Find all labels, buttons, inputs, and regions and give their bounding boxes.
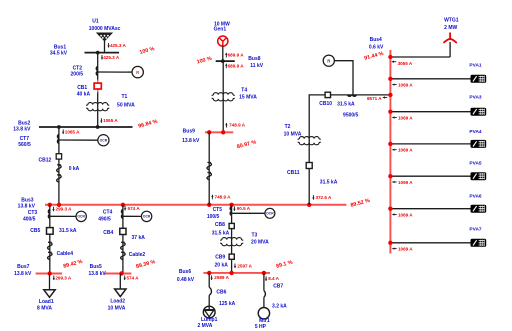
node Bus3 cable3 branch: [207, 203, 211, 207]
current label 299.3 A into Load1: [53, 276, 55, 281]
current label 1069 A PVA4: [392, 149, 396, 151]
bus Bus8 11 kV: [216, 60, 235, 62]
svg-text:Bus4: Bus4: [370, 37, 382, 43]
svg-text:200/5: 200/5: [71, 72, 84, 78]
utility U1: [97, 33, 112, 41]
svg-text:3055 A: 3055 A: [398, 61, 413, 66]
breaker CB7 LV: [264, 291, 265, 298]
wire relay R2 to tie line: [334, 61, 353, 95]
lumped load Lump1 2 MVA: [203, 306, 215, 318]
svg-text:31.5 kA: 31.5 kA: [337, 102, 355, 108]
svg-text:PVA5: PVA5: [469, 161, 482, 167]
svg-text:0 kA: 0 kA: [69, 166, 80, 172]
svg-text:20 kA: 20 kA: [215, 262, 229, 268]
svg-text:Load2: Load2: [110, 299, 125, 305]
svg-text:WTG1: WTG1: [444, 18, 459, 24]
wire Bus6 to Lump1: [208, 273, 210, 287]
node Bus4 WTG junction: [388, 55, 392, 59]
svg-text:0.6 kV: 0.6 kV: [369, 45, 384, 51]
node Bus4 PVA4 junction: [388, 142, 392, 146]
svg-text:560/5: 560/5: [18, 142, 31, 148]
svg-text:Bus6: Bus6: [179, 269, 191, 275]
svg-text:Load1: Load1: [39, 299, 54, 305]
svg-text:50 MVA: 50 MVA: [117, 102, 135, 108]
svg-text:T4: T4: [241, 88, 247, 94]
breaker CB1 40 kA open: [97, 80, 99, 93]
relay R2: [323, 55, 334, 66]
svg-text:100/5: 100/5: [207, 214, 220, 220]
breaker CB12: [56, 154, 61, 159]
svg-text:90.5 A: 90.5 A: [237, 206, 251, 211]
wire Bus4 to PVA5: [390, 175, 470, 177]
svg-text:Bus8: Bus8: [248, 56, 260, 62]
bus Bus4 0.6 kV: [389, 50, 391, 254]
breaker CB8: [229, 223, 234, 228]
PV array PVA3: [471, 108, 487, 116]
svg-text:3.2 kA: 3.2 kA: [272, 303, 287, 309]
current label 372.6 A: [312, 195, 314, 200]
node Bus4 PVA3 junction: [388, 110, 392, 114]
wire Bus4 to PVA4: [390, 143, 470, 145]
breaker CB5: [47, 228, 54, 235]
wire Bus4 to PVA3: [390, 111, 470, 113]
node Bus4 tie junction: [388, 93, 392, 97]
relay OCR4: [265, 208, 275, 218]
bus Bus5 13.8 kV: [104, 273, 131, 275]
current label 1065 A at T1 secondary: [100, 118, 102, 123]
svg-text:PVA7: PVA7: [469, 227, 482, 233]
svg-text:Cable2: Cable2: [129, 252, 146, 258]
svg-text:574 A: 574 A: [128, 206, 141, 211]
node Bus6 Lump1 junction: [207, 271, 211, 275]
svg-text:CB12: CB12: [39, 158, 52, 164]
wire Gen1 to Bus8: [222, 46, 224, 61]
node Bus7 junction: [48, 271, 52, 275]
wind turbine WTG1 2 MW: [444, 33, 456, 57]
current label 1069 A PVA7: [392, 247, 396, 249]
bus Bus9 13.8 kV faulted: [205, 131, 233, 133]
svg-text:689.9 A: 689.9 A: [228, 63, 245, 68]
bus Bus1 34.5 kV: [85, 52, 120, 54]
wire Bus3 to Bus5: [122, 205, 124, 274]
PV array PVA4: [471, 140, 487, 148]
node Bus8 junction: [221, 59, 225, 63]
svg-text:372.6 A: 372.6 A: [315, 195, 332, 200]
wire Bus2 feeder down to Bus3: [58, 127, 60, 205]
node Bus3 CT3 branch: [48, 203, 52, 207]
svg-text:37 kA: 37 kA: [132, 235, 146, 241]
svg-text:299.3 A: 299.3 A: [55, 275, 72, 280]
current label 1069 A PVA6: [392, 213, 396, 215]
svg-text:Bus9: Bus9: [183, 129, 195, 135]
node Bus9 T4 junction: [221, 130, 225, 134]
CT CT6 9500/5: [348, 95, 357, 96]
relay OCR1: [98, 135, 109, 146]
current label 1069 A PVA5: [392, 181, 396, 183]
PV array PVA1: [471, 75, 487, 83]
relay OCR2: [76, 211, 86, 221]
current label 3055 A WTG: [392, 61, 396, 63]
bus Bus7 13.8 kV: [36, 273, 63, 275]
svg-text:10 MVA: 10 MVA: [108, 306, 126, 312]
PV array PVA5: [471, 172, 487, 180]
svg-text:13.8 kV: 13.8 kV: [13, 126, 31, 132]
svg-text:748.9 A: 748.9 A: [229, 123, 246, 128]
generator Gen1 10 MW: [218, 36, 228, 46]
svg-text:1069 A: 1069 A: [398, 148, 413, 153]
svg-text:40 kA: 40 kA: [77, 92, 91, 98]
svg-text:Bus5: Bus5: [90, 264, 102, 270]
wire Bus9 to Bus3 cable3: [208, 132, 210, 205]
current label 2597 A into Bus6: [234, 264, 236, 269]
svg-text:31.5 kA: 31.5 kA: [212, 231, 230, 237]
node Bus9 cable junction: [207, 130, 211, 134]
CT CT4 490/5: [122, 210, 123, 219]
breaker CB10: [325, 92, 330, 97]
node Bus5 junction: [119, 271, 123, 275]
svg-text:8 MVA: 8 MVA: [37, 306, 52, 312]
svg-text:0.48 kV: 0.48 kV: [177, 277, 195, 283]
svg-text:1069 A: 1069 A: [398, 180, 413, 185]
svg-text:2 MVA: 2 MVA: [197, 323, 212, 329]
wire Bus6 to Mtr1: [263, 273, 265, 291]
current label 90.5 A Bus3 branch: [233, 206, 235, 211]
node Bus4 PVA5 junction: [388, 174, 392, 178]
node Bus6 Mtr1 junction: [262, 271, 266, 275]
svg-text:Bus3: Bus3: [21, 197, 33, 203]
wire WTG1 to Bus4: [390, 56, 450, 58]
wire utility drop to Bus1: [104, 40, 106, 52]
current label 748.9 A into Bus9: [225, 123, 227, 128]
wire Bus3 to Bus6 via T3: [231, 205, 233, 273]
wire CT5 tap to relay OCR4: [232, 212, 265, 214]
breaker CB4: [120, 228, 126, 234]
svg-text:31.5 kA: 31.5 kA: [59, 228, 77, 234]
current label 1065 A Bus2 feeder: [62, 129, 64, 134]
svg-text:1065 A: 1065 A: [103, 118, 118, 123]
wire CT4 tap to relay OCR3: [123, 215, 141, 217]
transformer T3 20 MVA: [221, 238, 243, 241]
transformer T2 10 MVA: [298, 137, 320, 140]
svg-text:2597 A: 2597 A: [237, 263, 252, 268]
svg-text:U1: U1: [92, 19, 99, 25]
cable Cable1: [57, 165, 62, 182]
wire CT7 tap to relay OCR1: [59, 139, 98, 141]
current label 425.3 A upper: [107, 43, 109, 48]
svg-text:CB7: CB7: [273, 283, 283, 289]
load Load1 8 MVA: [44, 290, 55, 298]
breaker CB9: [229, 254, 234, 259]
node Bus1 feeder junction: [96, 51, 100, 55]
wire Bus8 to T4 to Bus9: [222, 61, 224, 132]
svg-text:1065 A: 1065 A: [65, 129, 80, 134]
wire Bus3 up through T2 to tie line: [309, 95, 390, 205]
svg-text:125 kA: 125 kA: [219, 301, 236, 307]
svg-text:34.5 kV: 34.5 kV: [50, 50, 68, 56]
cable Cable2: [121, 242, 126, 259]
transformer T4 15 MVA: [212, 93, 234, 96]
svg-text:Cable4: Cable4: [57, 251, 74, 257]
svg-text:OCR: OCR: [77, 215, 85, 219]
current label 299.3 A Bus3 branch1: [52, 207, 54, 212]
current label 689.9 A above Bus8: [225, 53, 227, 58]
wire CT2 tap to relay R1: [98, 71, 132, 73]
svg-text:10000 MVAsc: 10000 MVAsc: [89, 26, 121, 32]
node Bus3 CT4 branch: [121, 203, 125, 207]
node Bus4 PVA7 junction: [388, 241, 392, 245]
svg-text:1069 A: 1069 A: [398, 212, 413, 217]
current label 2589 A Lump1: [210, 275, 212, 280]
current label 748.9 A into Bus3: [211, 195, 213, 200]
svg-text:PVA1: PVA1: [469, 62, 482, 68]
relay OCR3: [141, 211, 151, 221]
breaker CB11: [306, 163, 312, 169]
svg-text:CB11: CB11: [287, 170, 300, 176]
svg-text:425.3 A: 425.3 A: [103, 55, 120, 60]
svg-text:Bus7: Bus7: [17, 264, 29, 270]
wire Bus4 to PVA1: [390, 78, 470, 80]
node Bus4 PVA6 junction: [388, 207, 392, 211]
current label 1069 A PVA3: [392, 116, 396, 118]
wire Bus3 to Bus7: [49, 205, 51, 274]
current label 8571 A: [383, 96, 387, 98]
svg-text:13.8 kV: 13.8 kV: [182, 138, 200, 144]
relay R1: [132, 66, 143, 77]
svg-text:PVA3: PVA3: [469, 95, 482, 101]
node Bus2 feeder junction: [57, 125, 61, 129]
svg-text:31.5 kA: 31.5 kA: [320, 180, 338, 186]
svg-text:689.9 A: 689.9 A: [228, 53, 245, 58]
svg-text:CT2: CT2: [73, 65, 83, 71]
CT CT2 200/5: [96, 67, 97, 76]
svg-text:CB9: CB9: [215, 255, 225, 261]
svg-text:2589 A: 2589 A: [214, 275, 229, 280]
node Bus3 T2 branch: [307, 203, 311, 207]
node Bus3 feeder in: [57, 203, 61, 207]
wire Bus4 to PVA7: [390, 242, 470, 244]
svg-text:Gen1: Gen1: [214, 27, 227, 33]
svg-text:CB1: CB1: [77, 85, 87, 91]
PV array PVA6: [471, 205, 487, 213]
svg-text:CB10: CB10: [319, 101, 332, 107]
svg-text:748.9 A: 748.9 A: [215, 194, 232, 199]
svg-text:5 HP: 5 HP: [255, 324, 267, 330]
svg-text:1069 A: 1069 A: [398, 247, 413, 252]
svg-text:425.3 A: 425.3 A: [110, 43, 127, 48]
svg-text:574 A: 574 A: [126, 275, 139, 280]
svg-text:CB4: CB4: [103, 230, 113, 236]
svg-text:1069 A: 1069 A: [398, 83, 413, 88]
svg-text:11 kV: 11 kV: [250, 63, 263, 69]
current label 574 A Bus3 branch2: [124, 206, 126, 211]
current label 689.9 A below Bus8: [225, 64, 227, 69]
svg-text:OCR: OCR: [100, 138, 108, 142]
wire Bus1 to T1: [97, 53, 99, 127]
load Load2 10 MVA: [115, 289, 126, 297]
bus Bus2 13.8 kV: [39, 126, 133, 128]
svg-text:T3: T3: [251, 233, 257, 239]
motor Mtr1 5 HP: [258, 308, 269, 319]
svg-text:10 MVA: 10 MVA: [284, 132, 302, 138]
current label 8.4 A Mtr1: [265, 276, 267, 281]
node Bus4 PVA1 junction: [388, 77, 392, 81]
transformer T1 50 MVA: [87, 103, 109, 106]
svg-text:CB5: CB5: [30, 228, 40, 234]
svg-text:OCR: OCR: [266, 212, 274, 216]
svg-text:13.8 kV: 13.8 kV: [18, 204, 36, 210]
svg-text:1069 A: 1069 A: [398, 115, 413, 120]
svg-text:PVA6: PVA6: [469, 194, 482, 200]
svg-text:15 MVA: 15 MVA: [239, 94, 257, 100]
svg-text:PVA4: PVA4: [469, 129, 482, 135]
svg-text:CT4: CT4: [103, 209, 113, 215]
node Bus3 CT5 branch: [229, 203, 233, 207]
svg-text:T1: T1: [121, 94, 127, 100]
current label 1069 A PVA1: [392, 83, 396, 85]
current label 425.3 A lower: [101, 55, 103, 60]
svg-text:CT3: CT3: [28, 210, 38, 216]
svg-text:20 MVA: 20 MVA: [251, 239, 269, 245]
cable Cable4: [48, 242, 53, 259]
CT CT3 400/5: [49, 210, 50, 219]
svg-text:T2: T2: [285, 124, 291, 130]
wire Bus4 to PVA6: [390, 208, 470, 210]
breaker CB6 LV: [209, 287, 211, 295]
svg-text:13.8 kV: 13.8 kV: [14, 271, 32, 277]
CT CT5 100/5: [230, 207, 231, 216]
bus Bus3 13.8 kV faulted: [45, 204, 346, 206]
CT CT7 560/5: [58, 135, 59, 144]
svg-text:8571 A: 8571 A: [367, 96, 382, 101]
svg-text:490/5: 490/5: [98, 216, 111, 222]
node T1 to Bus2: [96, 125, 100, 129]
cable Cable3: [207, 163, 212, 180]
wire Bus7 to Load1: [49, 274, 51, 290]
current label 574 A into Load2: [124, 276, 126, 281]
svg-text:299.3 A: 299.3 A: [56, 207, 73, 212]
svg-text:CB8: CB8: [215, 222, 225, 228]
svg-text:2 MW: 2 MW: [444, 25, 457, 31]
bus Bus6 0.48 kV: [203, 272, 270, 274]
svg-text:CT5: CT5: [213, 207, 223, 213]
svg-text:13.8 kV: 13.8 kV: [88, 271, 106, 277]
svg-text:8.4 A: 8.4 A: [268, 276, 279, 281]
node Bus6 T3 junction: [229, 271, 233, 275]
svg-text:400/5: 400/5: [23, 216, 36, 222]
PV array PVA7: [471, 239, 487, 247]
wire CT3 tap to relay OCR2: [50, 215, 76, 217]
svg-text:9500/5: 9500/5: [343, 113, 359, 119]
svg-text:CB6: CB6: [216, 290, 226, 296]
wire Bus5 to Load2: [119, 274, 121, 290]
svg-text:OCR: OCR: [143, 215, 151, 219]
